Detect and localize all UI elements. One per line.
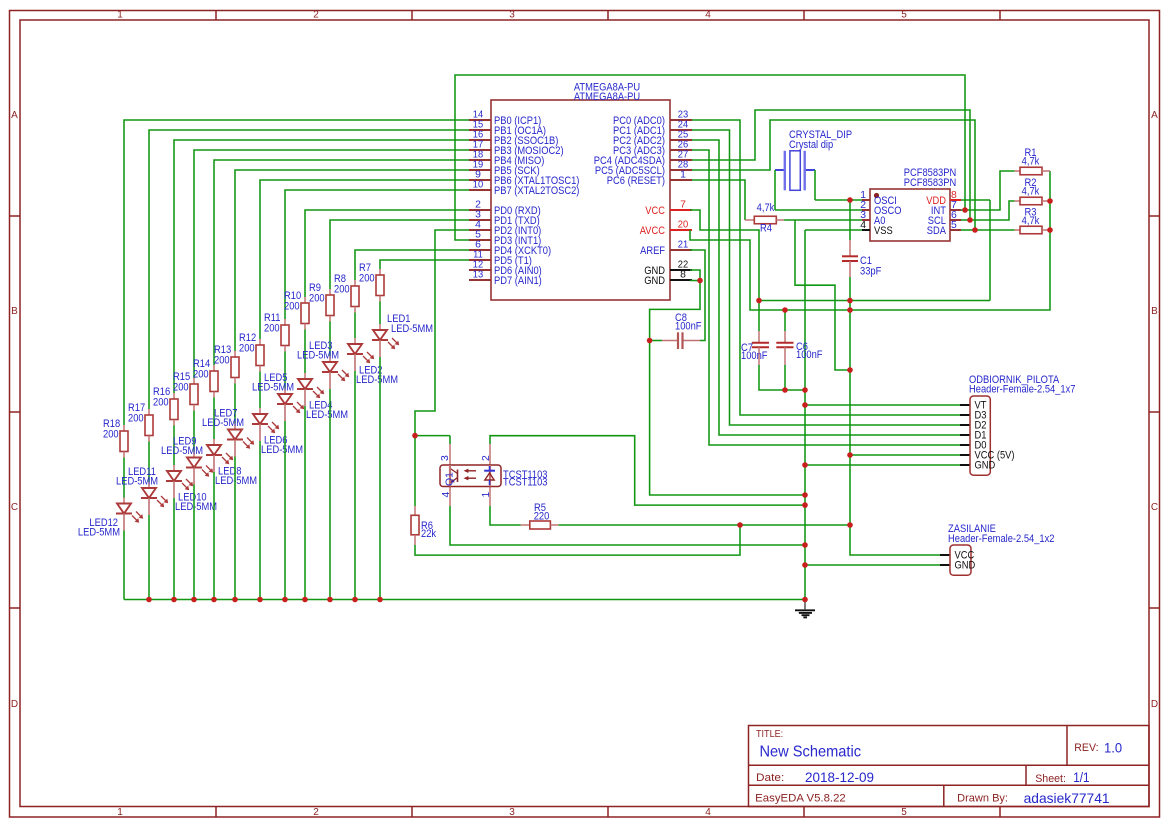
- svg-text:AVCC: AVCC: [640, 225, 665, 237]
- svg-text:3: 3: [509, 10, 515, 21]
- svg-text:C: C: [1151, 502, 1158, 513]
- svg-text:13: 13: [473, 270, 484, 281]
- svg-text:20: 20: [678, 220, 689, 231]
- svg-text:PCF8583PN: PCF8583PN: [904, 177, 957, 189]
- svg-text:GND: GND: [975, 460, 996, 472]
- svg-text:200: 200: [284, 301, 300, 313]
- svg-text:33pF: 33pF: [860, 266, 882, 278]
- svg-text:D: D: [1151, 699, 1158, 710]
- svg-text:10: 10: [473, 180, 484, 191]
- svg-text:REV:: REV:: [1074, 742, 1098, 754]
- svg-text:200: 200: [239, 343, 255, 355]
- svg-text:ATMEGA8A-PU: ATMEGA8A-PU: [574, 91, 640, 103]
- svg-text:200: 200: [128, 413, 144, 425]
- svg-text:R4: R4: [760, 223, 772, 235]
- svg-text:Q1: Q1: [445, 472, 456, 486]
- svg-text:LED-5MM: LED-5MM: [391, 323, 433, 335]
- svg-text:200: 200: [214, 355, 230, 367]
- svg-text:LED-5MM: LED-5MM: [175, 501, 217, 513]
- svg-text:LED-5MM: LED-5MM: [297, 350, 339, 362]
- svg-text:4,7k: 4,7k: [1022, 186, 1040, 198]
- svg-text:200: 200: [153, 397, 169, 409]
- svg-text:Drawn By:: Drawn By:: [957, 793, 1008, 805]
- svg-text:PB7 (XTAL2TOSC2): PB7 (XTAL2TOSC2): [494, 185, 579, 197]
- svg-text:5: 5: [951, 220, 957, 231]
- svg-text:4,7k: 4,7k: [1022, 215, 1040, 227]
- svg-text:GND: GND: [644, 275, 665, 287]
- svg-text:4: 4: [441, 492, 452, 498]
- svg-text:200: 200: [173, 382, 189, 394]
- svg-text:22k: 22k: [421, 528, 437, 540]
- svg-text:200: 200: [193, 369, 209, 381]
- svg-text:2: 2: [481, 455, 492, 461]
- svg-text:200: 200: [359, 273, 375, 285]
- svg-text:1: 1: [117, 807, 123, 818]
- svg-text:TITLE:: TITLE:: [756, 729, 783, 740]
- svg-text:adasiek77741: adasiek77741: [1024, 790, 1110, 806]
- svg-text:100nF: 100nF: [675, 321, 702, 333]
- svg-text:D: D: [11, 699, 18, 710]
- svg-text:8: 8: [680, 270, 686, 281]
- svg-text:1: 1: [481, 492, 492, 498]
- svg-text:Header-Female-2.54_1x2: Header-Female-2.54_1x2: [948, 533, 1055, 545]
- svg-text:B: B: [11, 306, 18, 317]
- svg-text:21: 21: [678, 240, 689, 251]
- svg-text:VSS: VSS: [874, 225, 893, 237]
- svg-text:200: 200: [334, 284, 350, 296]
- svg-text:PD7 (AIN1): PD7 (AIN1): [494, 275, 542, 287]
- svg-text:AREF: AREF: [640, 245, 665, 257]
- svg-text:200: 200: [103, 429, 119, 441]
- svg-text:2: 2: [313, 807, 319, 818]
- svg-text:100nF: 100nF: [796, 349, 823, 361]
- svg-text:GND: GND: [955, 560, 976, 572]
- svg-text:200: 200: [309, 293, 325, 305]
- svg-text:4,7k: 4,7k: [757, 202, 775, 214]
- svg-text:A: A: [11, 110, 18, 121]
- svg-text:PC6 (RESET): PC6 (RESET): [607, 175, 665, 187]
- svg-text:1.0: 1.0: [1104, 740, 1122, 756]
- svg-text:5: 5: [901, 807, 907, 818]
- svg-text:1: 1: [680, 170, 686, 181]
- svg-text:LED-5MM: LED-5MM: [116, 476, 158, 488]
- svg-text:4,7k: 4,7k: [1022, 156, 1040, 168]
- svg-text:3: 3: [440, 455, 451, 461]
- svg-text:3: 3: [509, 807, 515, 818]
- svg-text:220: 220: [534, 511, 550, 523]
- svg-text:A: A: [1151, 110, 1158, 121]
- svg-text:LED-5MM: LED-5MM: [252, 382, 294, 394]
- svg-text:LED-5MM: LED-5MM: [261, 444, 303, 456]
- svg-text:4: 4: [705, 10, 711, 21]
- svg-text:SDA: SDA: [927, 225, 947, 237]
- svg-text:TCST1103: TCST1103: [503, 477, 548, 489]
- svg-text:LED-5MM: LED-5MM: [356, 374, 398, 386]
- svg-text:VCC: VCC: [645, 205, 665, 217]
- svg-text:Header-Female-2.54_1x7: Header-Female-2.54_1x7: [969, 384, 1076, 396]
- svg-text:LED-5MM: LED-5MM: [215, 475, 257, 487]
- svg-text:LED-5MM: LED-5MM: [202, 417, 244, 429]
- svg-text:New Schematic: New Schematic: [760, 744, 862, 761]
- svg-text:Date:: Date:: [756, 772, 784, 784]
- svg-text:2018-12-09: 2018-12-09: [805, 769, 874, 785]
- svg-text:Crystal dip: Crystal dip: [789, 139, 833, 151]
- svg-text:1: 1: [117, 10, 123, 21]
- svg-text:C: C: [11, 502, 18, 513]
- svg-text:7: 7: [680, 200, 686, 211]
- svg-text:LED-5MM: LED-5MM: [161, 445, 203, 457]
- svg-text:LED-5MM: LED-5MM: [78, 527, 120, 539]
- svg-text:5: 5: [901, 10, 907, 21]
- svg-text:2: 2: [313, 10, 319, 21]
- svg-text:1/1: 1/1: [1073, 769, 1089, 785]
- svg-text:4: 4: [705, 807, 711, 818]
- svg-text:Sheet:: Sheet:: [1035, 773, 1066, 785]
- svg-text:100nF: 100nF: [741, 350, 768, 362]
- svg-text:LED-5MM: LED-5MM: [306, 409, 348, 421]
- svg-text:B: B: [1151, 306, 1158, 317]
- svg-text:EasyEDA V5.8.22: EasyEDA V5.8.22: [755, 793, 846, 805]
- svg-text:200: 200: [264, 323, 280, 335]
